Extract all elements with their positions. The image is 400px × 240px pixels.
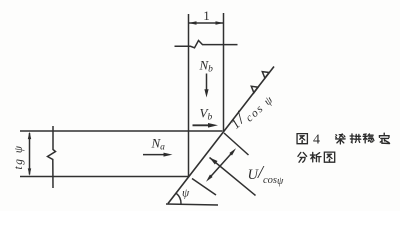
dimension arrow 1/cos psi shaft [210,153,232,178]
U/cos psi leader arrowhead [210,158,218,165]
Na arrowhead [164,153,173,157]
arch axis main diagonal [168,67,274,204]
extension tick upper for 1/cos psi [224,133,249,155]
column left edge / left extension line [188,14,190,177]
label 1/cos psi (rotated) [225,85,276,135]
Nb arrowhead [204,89,208,97]
label tg psi (rotated) [13,145,25,170]
1/cos psi dim arrowhead lower [206,175,213,182]
svg-text:Na: Na [151,136,166,153]
beam depth dimension line tg psi [29,133,31,175]
dim 1 arrowhead right [216,21,224,24]
svg-text:1: 1 [203,8,210,23]
svg-text:Nb: Nb [199,58,214,75]
svg-text:Vb: Vb [200,106,213,123]
svg-text:4: 4 [313,133,320,148]
break mark 2 on arch [262,72,269,79]
section cut line with break on column [175,41,238,48]
1/cos psi dim arrowhead upper [229,148,236,155]
svg-text:tg ψ: tg ψ [13,145,25,170]
caption line 1: 图 4 梁拱稳定 [297,134,307,144]
svg-text:ψ: ψ [182,188,190,200]
beam bottom line [20,176,190,178]
tg psi dim arrowhead down [28,168,31,176]
break mark 1 on arch [251,86,258,93]
Vb arrowhead [208,123,218,128]
beam left cut line with break [48,126,56,188]
extension tick lower for 1/cos psi [192,179,216,196]
svg-text:1/cos ψ: 1/cos ψ [225,85,276,135]
tg psi dim arrowhead up [28,132,31,140]
springing ground line [166,204,218,205]
dimension line for width 1 [189,22,224,24]
Vb force arrow shaft [193,124,211,126]
angle arc psi [176,193,181,204]
column right edge / right extension line [223,13,225,131]
caption line 2: 分析图 [298,152,307,162]
svg-text:U/cosψ: U/cosψ [248,162,285,187]
beam top line [20,130,223,132]
Nb force arrow shaft [206,74,208,92]
dim 1 arrowhead left [189,21,197,24]
leader line U/cos psi [210,158,256,196]
Na force arrow shaft [143,154,165,156]
